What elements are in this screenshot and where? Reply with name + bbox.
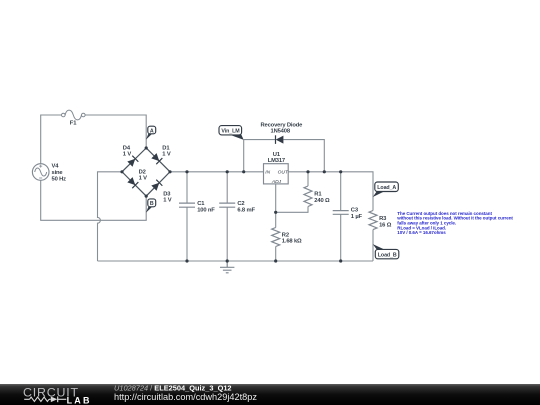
- wire: [244, 140, 325, 172]
- junction: [185, 259, 188, 262]
- recovery diode 1N5408: [261, 123, 304, 144]
- op-amp U1 LM317 regulator: [264, 152, 289, 185]
- wire: [243, 140, 245, 172]
- svg-text:1 V: 1 V: [163, 198, 172, 204]
- svg-text:Vin_LM: Vin_LM: [221, 129, 240, 135]
- junction: [306, 170, 309, 173]
- svg-text:R2: R2: [282, 232, 289, 238]
- junction: [120, 170, 123, 173]
- wire: [288, 172, 373, 211]
- svg-text:Load_A: Load_A: [377, 185, 396, 191]
- svg-text:R1: R1: [314, 192, 322, 198]
- junction: [274, 211, 277, 214]
- svg-text:6.8 mF: 6.8 mF: [237, 208, 255, 214]
- junction: [339, 170, 342, 173]
- wire: [85, 115, 146, 148]
- capacitor C2: [219, 201, 255, 214]
- wire: [226, 172, 228, 261]
- node A: [146, 126, 156, 140]
- junction: [226, 259, 229, 262]
- junction: [226, 170, 229, 173]
- junction: [323, 170, 326, 173]
- voltage source V4: [32, 163, 66, 182]
- diode D4: [123, 146, 139, 168]
- fuse F1: [62, 110, 86, 126]
- wire: [275, 184, 277, 261]
- wire: [170, 171, 264, 173]
- svg-text:1 µF: 1 µF: [351, 214, 363, 220]
- junction: [145, 195, 148, 198]
- wire: [41, 180, 147, 220]
- svg-text:U1: U1: [273, 152, 281, 158]
- svg-text:1 V: 1 V: [162, 152, 171, 158]
- svg-text:V4: V4: [52, 163, 60, 169]
- diode D2: [127, 170, 147, 189]
- svg-text:10V / 0.6A = 16.67ohms: 10V / 0.6A = 16.67ohms: [397, 230, 446, 235]
- svg-text:A: A: [150, 128, 154, 134]
- junction: [168, 170, 171, 173]
- svg-text:100 nF: 100 nF: [197, 208, 215, 214]
- capacitor C3: [333, 208, 363, 221]
- svg-text:F1: F1: [70, 120, 77, 126]
- svg-text:OUT: OUT: [278, 170, 289, 176]
- svg-text:Recovery Diode: Recovery Diode: [261, 123, 304, 129]
- resistor R3: [369, 211, 392, 230]
- svg-text:1 V: 1 V: [123, 152, 132, 158]
- svg-text:C2: C2: [237, 201, 244, 207]
- wire: [340, 172, 342, 261]
- junction: [185, 170, 188, 173]
- svg-text:50 Hz: 50 Hz: [52, 177, 67, 183]
- capacitor C1: [179, 201, 215, 214]
- wire: [276, 172, 308, 213]
- resistor R2: [272, 228, 302, 247]
- svg-text:D2: D2: [139, 170, 146, 176]
- wire: [98, 260, 374, 262]
- junction: [145, 146, 148, 149]
- svg-text:LM317: LM317: [268, 158, 285, 164]
- node Load_B: [373, 244, 399, 259]
- svg-text:IN: IN: [265, 170, 270, 176]
- svg-text:http://circuitlab.com/cdwh29j4: http://circuitlab.com/cdwh29j42t8pz: [114, 392, 257, 402]
- svg-text:D3: D3: [163, 191, 171, 197]
- node B: [146, 199, 156, 213]
- svg-text:Load_B: Load_B: [378, 253, 397, 259]
- wire: [98, 172, 123, 261]
- junction: [242, 170, 245, 173]
- svg-text:1.68 kΩ: 1.68 kΩ: [282, 239, 302, 245]
- junction: [339, 259, 342, 262]
- svg-text:16 Ω: 16 Ω: [379, 222, 392, 228]
- footer text: [114, 383, 257, 402]
- svg-text:D1: D1: [162, 146, 170, 152]
- diode bridge wires: [122, 148, 170, 196]
- svg-text:sine: sine: [52, 170, 64, 176]
- junction: [274, 259, 277, 262]
- CircuitLab logo: [23, 385, 92, 405]
- resistor R1: [304, 186, 330, 207]
- wire: [186, 172, 188, 261]
- svg-text:1N5408: 1N5408: [271, 129, 291, 135]
- ground: [220, 261, 234, 273]
- diode D1: [151, 146, 171, 165]
- wire: [41, 115, 62, 164]
- CircuitLab footer bar: [0, 384, 540, 405]
- wire: [372, 230, 374, 261]
- net flag Vin_LM: [219, 126, 244, 140]
- svg-text:D4: D4: [123, 146, 131, 152]
- annotation text: [396, 211, 513, 235]
- node Load_A: [373, 182, 399, 197]
- svg-text:C3: C3: [351, 208, 359, 214]
- svg-text:C1: C1: [197, 201, 205, 207]
- svg-text:R3: R3: [379, 216, 387, 222]
- svg-text:1 V: 1 V: [139, 176, 148, 182]
- svg-text:ADJ: ADJ: [271, 179, 282, 185]
- svg-text:LAB: LAB: [67, 395, 92, 405]
- diode D3: [151, 180, 172, 204]
- svg-text:240 Ω: 240 Ω: [314, 198, 330, 204]
- svg-text:B: B: [150, 201, 154, 207]
